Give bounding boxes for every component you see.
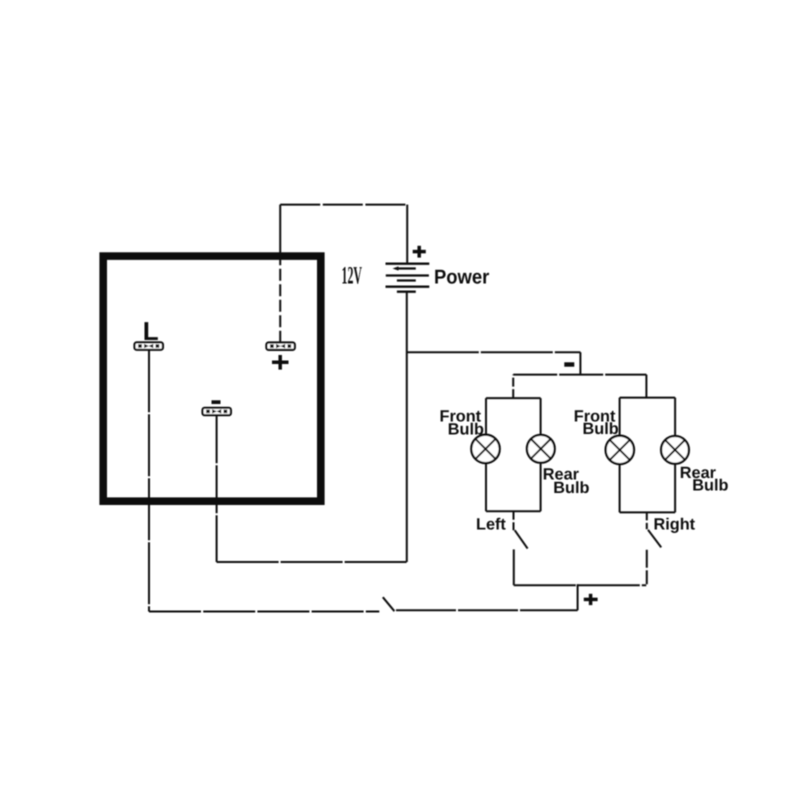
svg-text:Power: Power — [434, 266, 489, 288]
svg-text:Bulb: Bulb — [692, 477, 728, 495]
svg-text:Bulb: Bulb — [448, 420, 484, 438]
svg-text:12V: 12V — [342, 263, 363, 290]
svg-text:Left: Left — [476, 515, 506, 533]
svg-text:Bulb: Bulb — [553, 479, 589, 497]
svg-text:Right: Right — [654, 516, 696, 534]
svg-text:Bulb: Bulb — [583, 420, 619, 438]
svg-text:L: L — [143, 316, 159, 346]
